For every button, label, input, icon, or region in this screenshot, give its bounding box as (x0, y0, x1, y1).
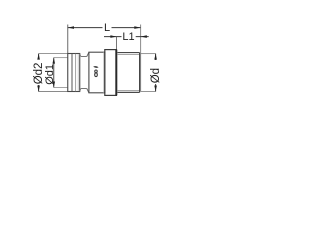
wire: Od extension line top (141, 53, 156, 55)
dimension L1 arrow left (points right) (110, 35, 116, 38)
thread end face (139, 53, 141, 93)
wire: Od2 extension line top (39, 53, 68, 55)
svg-text:Ød: Ød (150, 68, 162, 83)
svg-text:L: L (104, 22, 110, 34)
chamfer top (87, 52, 89, 56)
dimension Od2 line (38, 54, 40, 92)
dimension L arrow right (134, 26, 140, 29)
dimension Od2 arrow down (37, 86, 40, 92)
thread root top (117, 54, 139, 56)
dimension Od1 arrow down (52, 82, 55, 88)
hex flange outline (105, 50, 117, 96)
dimension L arrow left (68, 26, 74, 29)
groove top edge (80, 54, 87, 57)
sleeve band line light (75, 54, 77, 91)
sleeve band line dark (71, 54, 73, 91)
dimension Od arrow down (154, 86, 157, 92)
svg-text:Ød1: Ød1 (44, 64, 56, 85)
wire: dimension L / L1 extension line right (140, 25, 142, 92)
hex flange thick right face (115, 50, 117, 96)
collar body outline (89, 52, 105, 93)
wire: Od1 extension line bottom (54, 87, 68, 89)
chamfer bottom (87, 89, 89, 93)
thread crest bottom (117, 91, 139, 93)
groove bottom edge (80, 89, 87, 92)
dimension Od1 line (53, 58, 55, 88)
dimension L line (68, 27, 141, 29)
dimension L1 line and outside arrow tails (104, 36, 149, 38)
coupling sleeve body outline (68, 54, 80, 92)
wire: Od2 extension line bottom (39, 91, 68, 93)
dimension L1 arrow right (points left) (141, 35, 147, 38)
dimension Od line (155, 54, 157, 92)
wire: Od extension line bottom (141, 91, 156, 93)
dimension Od arrow up (154, 54, 157, 60)
wire: Od1 extension line top (54, 57, 68, 59)
thread crest top (117, 52, 139, 54)
wire: dimension L1 extension line (116, 37, 118, 50)
svg-text:L1: L1 (122, 31, 134, 43)
collar shade line (102, 52, 104, 92)
logo mark dash (93, 66, 98, 68)
thread root bottom (117, 89, 139, 91)
dimension Od2 arrow up (37, 54, 40, 60)
wire: dimension L extension line left (67, 25, 69, 54)
logo mark eight (95, 70, 98, 77)
dimension Od1 arrow up (52, 58, 55, 64)
sleeve shade line (77, 54, 79, 91)
